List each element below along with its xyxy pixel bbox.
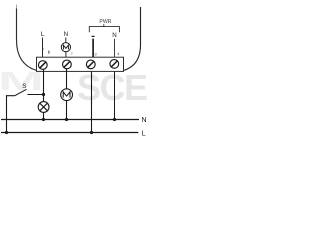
- junction dot terminal3/L bus: [90, 131, 93, 134]
- label L (top left pin): [41, 31, 45, 38]
- wire: terminal 2 down to motor: [66, 69, 68, 89]
- switch S blade: [15, 89, 27, 95]
- lamp E1: [38, 102, 49, 113]
- device body left edge: [17, 5, 37, 71]
- svg-text:L: L: [142, 131, 146, 138]
- N bus wire: [1, 119, 139, 121]
- svg-text:N: N: [142, 117, 147, 124]
- terminal 1 tiny number: [48, 51, 49, 54]
- terminal strip: [37, 57, 124, 71]
- junction dot switch/L bus: [5, 131, 8, 134]
- wire: terminal 1 down to lamp: [43, 69, 45, 102]
- watermark letters SCE: [77, 67, 148, 108]
- label N (bus): [142, 117, 147, 124]
- wire: PWR L pin to terminal 3 (bold): [92, 39, 94, 57]
- wire: motor down to N bus: [66, 101, 68, 120]
- terminal 2 tiny number: [71, 50, 74, 55]
- PWR bracket: [89, 24, 119, 32]
- junction dot lamp/N bus: [42, 118, 45, 121]
- wire: lamp down to N bus: [43, 112, 45, 119]
- internal clock motor M1: [61, 43, 70, 52]
- label S (switch): [22, 83, 26, 90]
- label PWR: [99, 19, 111, 25]
- terminal screw 3: [86, 60, 95, 69]
- artifact dot on pin L wire: [42, 48, 43, 49]
- label L (bus): [142, 131, 146, 138]
- svg-text:PWR: PWR: [99, 19, 111, 25]
- wire: terminal 4 down to N bus: [114, 72, 116, 120]
- svg-text:S: S: [22, 83, 26, 90]
- label N (top second pin): [64, 31, 68, 38]
- svg-text:SCE: SCE: [77, 67, 148, 108]
- junction dot switch/lamp: [42, 93, 45, 96]
- svg-text:L: L: [41, 31, 45, 38]
- wire: internal motor to terminal 2: [65, 52, 67, 57]
- label L (PWR left pin, tiny dash): [92, 36, 95, 37]
- switch S left wire: [7, 96, 15, 133]
- label N (PWR right pin): [112, 32, 116, 39]
- svg-text:N: N: [64, 31, 68, 38]
- junction dot terminal4/N bus: [113, 118, 116, 121]
- terminal 4 tiny number: [117, 51, 120, 56]
- watermark letter M: [0, 66, 44, 96]
- wire: N stub to internal motor: [65, 38, 67, 43]
- wire: terminal 3 down to L bus: [91, 72, 93, 133]
- junction dot motor/N bus: [65, 118, 68, 121]
- terminal 3 tiny number: [94, 51, 97, 56]
- device body right edge: [124, 7, 141, 71]
- terminal screw 4: [110, 60, 119, 69]
- terminal screw 1: [38, 61, 47, 70]
- terminal screw 2: [63, 60, 72, 69]
- L bus wire: [1, 132, 138, 134]
- svg-text:N: N: [112, 32, 116, 39]
- switch S right wire: [27, 94, 43, 96]
- motor M2: [61, 89, 73, 101]
- wire: pin L stub to terminal 1: [42, 38, 44, 58]
- wire: PWR N pin to terminal 4: [114, 39, 116, 57]
